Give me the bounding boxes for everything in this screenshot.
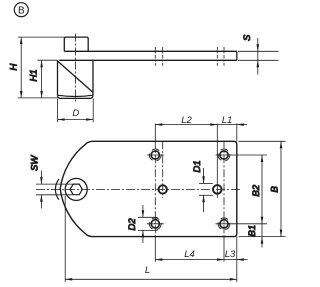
svg-text:L2: L2 (181, 115, 192, 126)
svg-text:B2: B2 (251, 184, 262, 196)
svg-text:D2: D2 (127, 218, 138, 231)
svg-text:L: L (145, 265, 150, 276)
svg-text:B: B (18, 5, 25, 16)
svg-text:B: B (270, 186, 281, 193)
svg-text:L3: L3 (225, 249, 236, 260)
svg-text:L1: L1 (222, 115, 233, 126)
svg-text:D: D (72, 108, 79, 119)
svg-text:B1: B1 (247, 225, 258, 237)
svg-text:D1: D1 (192, 160, 203, 172)
svg-text:H: H (9, 64, 20, 71)
svg-text:SW: SW (30, 155, 41, 171)
svg-text:H1: H1 (29, 69, 40, 81)
svg-text:S: S (242, 34, 253, 41)
svg-text:L4: L4 (184, 249, 195, 260)
